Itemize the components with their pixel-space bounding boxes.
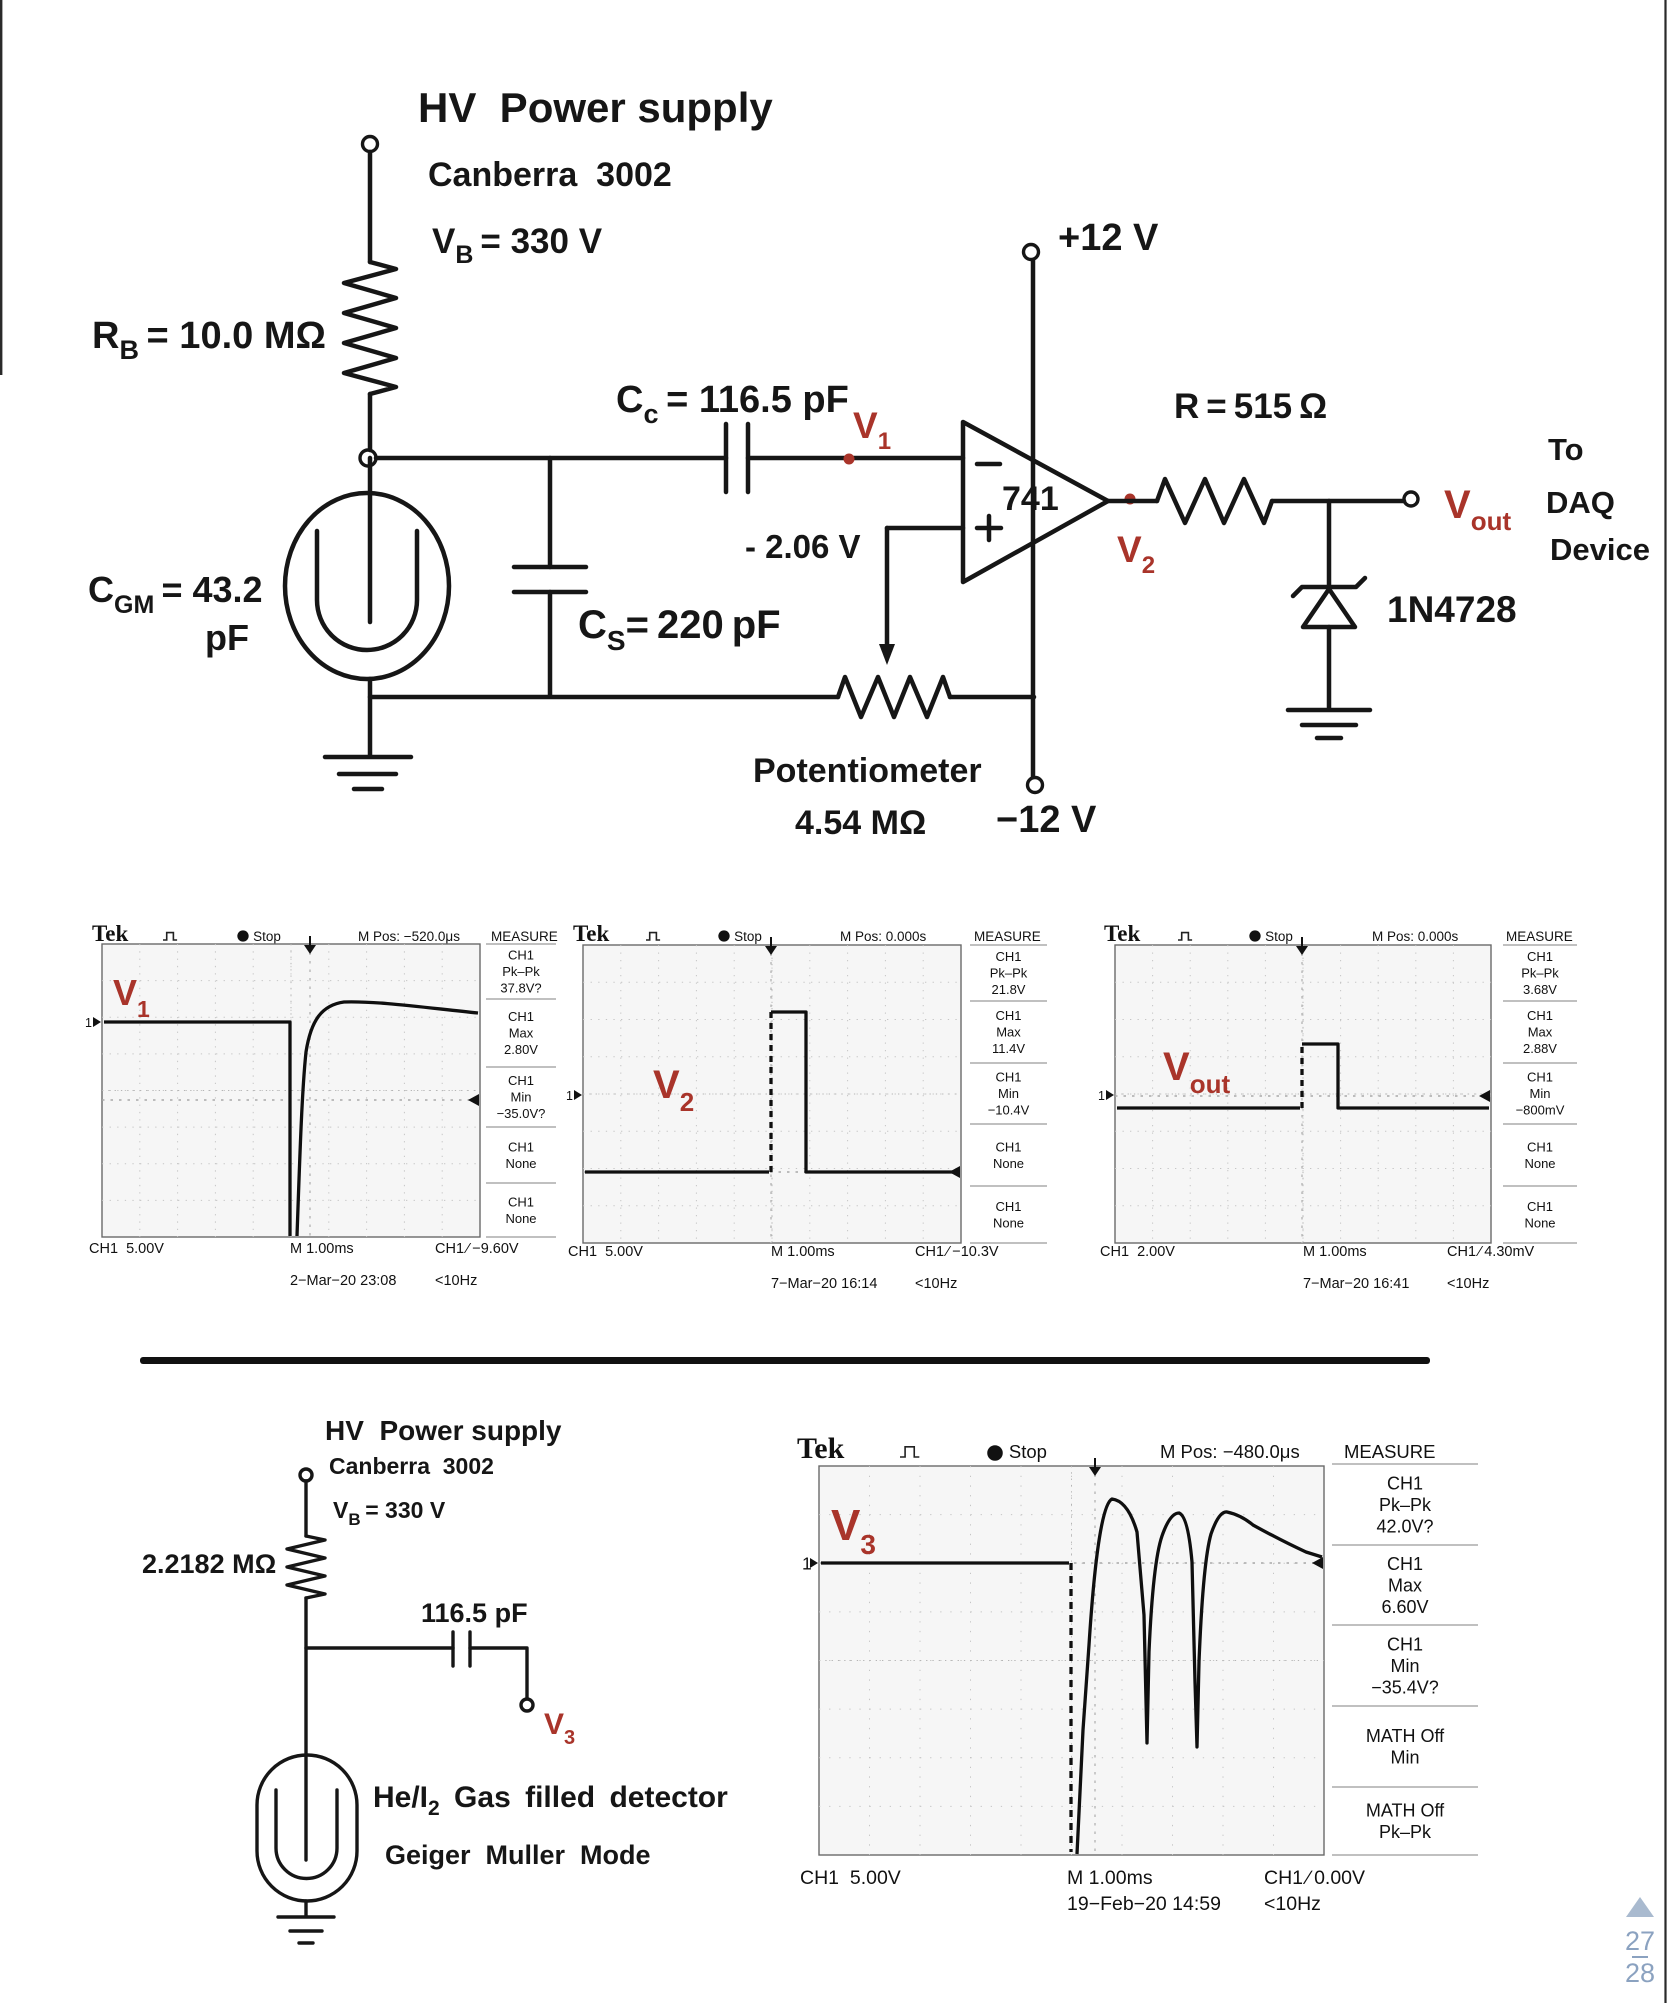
svg-text:11.4V: 11.4V — [992, 1041, 1025, 1056]
svg-text:None: None — [993, 1215, 1024, 1230]
svg-text:3.68V: 3.68V — [1523, 982, 1557, 997]
oscilloscope screenshot 4 (V3 waveform) — [797, 1432, 1480, 1922]
svg-text:−35.4V?: −35.4V? — [1371, 1677, 1439, 1697]
svg-text:Canberra 3002: Canberra 3002 — [329, 1453, 494, 1479]
svg-text:- 2.06 V: - 2.06 V — [745, 528, 861, 565]
capacitor Cs 220 pF — [514, 567, 586, 592]
svg-text:4.54 MΩ: 4.54 MΩ — [795, 804, 926, 842]
wire: RB to node — [368, 394, 373, 450]
Geiger tube anode wire — [368, 458, 373, 622]
svg-text:CH1 ∕ 0.00V: CH1 ∕ 0.00V — [1264, 1867, 1365, 1889]
page nav triangle — [1626, 1897, 1654, 1917]
svg-text:Max: Max — [996, 1025, 1021, 1040]
svg-text:Max: Max — [1388, 1575, 1422, 1595]
resistor 2.2182 MOhm — [287, 1536, 325, 1598]
svg-text:Pk–Pk: Pk–Pk — [1379, 1495, 1432, 1515]
wire: R to output terminal — [1272, 499, 1404, 504]
svg-text:Pk–Pk: Pk–Pk — [502, 964, 540, 979]
wire: op-amp output to R — [1108, 499, 1157, 504]
svg-text:<10Hz: <10Hz — [1264, 1893, 1321, 1915]
page left edge scan line — [0, 0, 2, 375]
wiper arrow from non-inverting input — [885, 528, 890, 648]
svg-text:Min: Min — [998, 1086, 1019, 1101]
svg-text:CH1 ∕ 4.30mV: CH1 ∕ 4.30mV — [1447, 1244, 1535, 1260]
svg-text:M Pos: −480.0μs: M Pos: −480.0μs — [1160, 1441, 1300, 1462]
zener diode D1 triangle — [1303, 589, 1355, 627]
svg-text:28: 28 — [1625, 1958, 1655, 1988]
ground (top circuit) — [325, 757, 411, 789]
wire: junction to coupling cap (bottom) — [306, 1646, 453, 1649]
svg-text:Canberra 3002: Canberra 3002 — [428, 156, 672, 194]
page right edge scan line — [1664, 0, 1666, 2003]
svg-text:CH1: CH1 — [1527, 949, 1553, 964]
op-amp non-inverting pin (+) — [977, 516, 1001, 540]
op-amp inverting pin (-) — [977, 462, 1000, 467]
svg-text:M Pos: 0.000s: M Pos: 0.000s — [1372, 929, 1459, 944]
capacitor Cs branch wire (bottom) — [548, 592, 553, 696]
svg-text:6.60V: 6.60V — [1381, 1597, 1428, 1617]
-12V terminal — [1028, 778, 1043, 793]
svg-text:CH1: CH1 — [1527, 1139, 1553, 1154]
svg-text:27: 27 — [1625, 1926, 1655, 1956]
wire: non-inverting input — [887, 526, 963, 531]
svg-text:CH1: CH1 — [995, 1070, 1021, 1085]
oscilloscope screenshot 2 (V2 waveform) — [561, 921, 1049, 1300]
svg-text:Min: Min — [1390, 1748, 1419, 1768]
svg-text:7−Mar−20 16:41: 7−Mar−20 16:41 — [1303, 1276, 1409, 1292]
svg-text:CH1: CH1 — [508, 1194, 534, 1209]
svg-text:741: 741 — [1002, 480, 1059, 518]
wire: terminal to resistor (bottom) — [304, 1481, 307, 1536]
Geiger-Muller tube CGM (envelope) — [285, 493, 449, 679]
svg-text:HV Power supply: HV Power supply — [325, 1415, 562, 1446]
svg-text:CH1: CH1 — [995, 1199, 1021, 1214]
svg-text:Min: Min — [511, 1090, 532, 1105]
svg-text:42.0V?: 42.0V? — [1376, 1516, 1433, 1536]
svg-text:CH1: CH1 — [1387, 1554, 1423, 1574]
svg-text:Min: Min — [1530, 1086, 1551, 1101]
svg-text:1: 1 — [566, 1089, 573, 1103]
svg-text:1N4728: 1N4728 — [1387, 589, 1517, 630]
svg-text:MATH Off: MATH Off — [1366, 1726, 1445, 1746]
svg-text:Pk–Pk: Pk–Pk — [990, 966, 1028, 981]
svg-text:CH1: CH1 — [1527, 1199, 1553, 1214]
node: anode junction — [360, 450, 376, 466]
svg-text:Stop: Stop — [734, 929, 762, 944]
svg-text:MEASURE: MEASURE — [491, 929, 558, 944]
svg-text:CH1: CH1 — [995, 949, 1021, 964]
svg-text:CH1 5.00V: CH1 5.00V — [89, 1241, 164, 1257]
Geiger tube (bottom, envelope) — [257, 1755, 357, 1901]
wire: resistor to tube (bottom) — [304, 1598, 307, 1860]
svg-text:CH1 ∕ −9.60V: CH1 ∕ −9.60V — [435, 1241, 519, 1257]
svg-text:Pk–Pk: Pk–Pk — [1521, 966, 1559, 981]
svg-text:7−Mar−20 16:14: 7−Mar−20 16:14 — [771, 1276, 877, 1292]
svg-text:M 1.00ms: M 1.00ms — [290, 1241, 354, 1257]
svg-text:CH1: CH1 — [1387, 1473, 1423, 1493]
svg-text:1: 1 — [1098, 1089, 1105, 1103]
wire: tube to ground — [368, 679, 373, 755]
power rail +12V to -12V — [1031, 260, 1036, 777]
svg-text:2.88V: 2.88V — [1523, 1041, 1557, 1056]
svg-text:<10Hz: <10Hz — [1447, 1276, 1489, 1292]
ground (zener) — [1288, 710, 1370, 738]
capacitor Cs branch wire (top) — [548, 458, 553, 567]
svg-text:−10.4V: −10.4V — [988, 1103, 1030, 1118]
svg-text:CH1: CH1 — [995, 1139, 1021, 1154]
svg-text:DAQ: DAQ — [1546, 485, 1615, 520]
svg-text:2−Mar−20 23:08: 2−Mar−20 23:08 — [290, 1273, 396, 1289]
svg-text:Stop: Stop — [1265, 929, 1293, 944]
svg-text:37.8V?: 37.8V? — [500, 981, 541, 996]
svg-text:CH1: CH1 — [508, 1139, 534, 1154]
svg-text:To: To — [1548, 432, 1584, 467]
section divider line — [140, 1357, 1430, 1364]
svg-text:None: None — [505, 1156, 536, 1171]
svg-text:CH1: CH1 — [1387, 1634, 1423, 1654]
svg-text:M Pos: 0.000s: M Pos: 0.000s — [840, 929, 927, 944]
wire: node to Cc — [376, 456, 726, 461]
page number separator — [1632, 1956, 1648, 1958]
oscilloscope screenshot 1 (V1 waveform) — [80, 921, 558, 1297]
HV supply terminal (top circuit) — [363, 137, 378, 152]
svg-text:Max: Max — [1528, 1025, 1553, 1040]
wire: cap to V3 terminal — [470, 1648, 527, 1698]
HV supply terminal (bottom circuit) — [300, 1469, 312, 1481]
svg-text:−800mV: −800mV — [1516, 1103, 1565, 1118]
svg-text:CH1 5.00V: CH1 5.00V — [800, 1867, 901, 1889]
oscilloscope screenshot 3 (Vout waveform) — [1093, 921, 1579, 1300]
svg-text:<10Hz: <10Hz — [915, 1276, 957, 1292]
potentiometer 4.54 MOhm — [838, 677, 950, 717]
svg-text:21.8V: 21.8V — [992, 982, 1026, 997]
svg-text:pF: pF — [205, 617, 249, 658]
svg-text:MEASURE: MEASURE — [974, 929, 1041, 944]
wire: zener to ground — [1327, 627, 1332, 708]
capacitor 116.5 pF (bottom) — [453, 1632, 470, 1666]
svg-text:−12 V: −12 V — [996, 799, 1097, 841]
svg-text:R = 515 Ω: R = 515 Ω — [1174, 387, 1327, 426]
node V1 (red dot) — [844, 454, 855, 465]
svg-text:−35.0V?: −35.0V? — [497, 1106, 546, 1121]
svg-text:None: None — [505, 1211, 536, 1226]
svg-text:CH1: CH1 — [508, 1073, 534, 1088]
svg-text:MATH Off: MATH Off — [1366, 1801, 1445, 1821]
svg-text:CH1 ∕ −10.3V: CH1 ∕ −10.3V — [915, 1244, 999, 1260]
svg-text:Stop: Stop — [253, 929, 281, 944]
+12V terminal — [1024, 245, 1039, 260]
svg-text:M 1.00ms: M 1.00ms — [1067, 1867, 1153, 1889]
svg-text:CH1 5.00V: CH1 5.00V — [568, 1244, 643, 1260]
svg-text:CH1: CH1 — [508, 1009, 534, 1024]
V3 terminal — [521, 1699, 533, 1711]
capacitor Cc 116.5 pF — [726, 424, 748, 492]
wire: Cc to op-amp inverting input — [748, 456, 963, 461]
svg-text:Potentiometer: Potentiometer — [753, 752, 982, 790]
svg-text:2.80V: 2.80V — [504, 1042, 538, 1057]
svg-text:+12 V: +12 V — [1058, 217, 1159, 259]
svg-text:19−Feb−20 14:59: 19−Feb−20 14:59 — [1067, 1893, 1221, 1915]
svg-text:CH1 2.00V: CH1 2.00V — [1100, 1244, 1175, 1260]
output terminal Vout — [1404, 492, 1418, 506]
resistor R = 515 Ohm — [1157, 479, 1272, 523]
svg-text:Pk–Pk: Pk–Pk — [1379, 1822, 1432, 1842]
svg-text:1: 1 — [85, 1016, 92, 1030]
svg-text:116.5 pF: 116.5 pF — [421, 1598, 528, 1628]
Geiger tube cathode U (bottom) — [276, 1790, 337, 1878]
svg-text:HV Power supply: HV Power supply — [418, 84, 773, 131]
svg-text:None: None — [993, 1156, 1024, 1171]
svg-text:Device: Device — [1550, 532, 1650, 567]
zener diode D1 1N4728 cathode bar — [1293, 578, 1365, 596]
svg-text:CH1: CH1 — [1527, 1008, 1553, 1023]
svg-text:Stop: Stop — [1009, 1441, 1047, 1462]
svg-text:Tek: Tek — [797, 1432, 845, 1465]
node V2 (red dot) — [1125, 494, 1136, 505]
svg-text:MEASURE: MEASURE — [1506, 929, 1573, 944]
svg-text:Geiger Muller Mode: Geiger Muller Mode — [385, 1840, 651, 1870]
resistor RB — [344, 262, 396, 394]
svg-text:CH1: CH1 — [508, 948, 534, 963]
wire: bottom rail to potentiometer — [370, 695, 838, 700]
wire: tube to ground (bottom) — [304, 1901, 307, 1916]
svg-text:Min: Min — [1390, 1656, 1419, 1676]
wire: HV terminal to RB — [368, 152, 373, 262]
wire: junction to zener — [1327, 501, 1332, 586]
svg-text:2.2182 MΩ: 2.2182 MΩ — [142, 1549, 276, 1579]
svg-text:M Pos: −520.0μs: M Pos: −520.0μs — [358, 929, 460, 944]
svg-text:<10Hz: <10Hz — [435, 1273, 477, 1289]
Geiger tube cathode (U electrode) — [317, 531, 417, 650]
svg-text:Max: Max — [509, 1026, 534, 1041]
svg-text:Tek: Tek — [573, 921, 609, 946]
wire: potentiometer to -12V rail — [950, 695, 1034, 700]
svg-text:None: None — [1524, 1215, 1555, 1230]
svg-text:None: None — [1524, 1156, 1555, 1171]
svg-text:Tek: Tek — [1104, 921, 1140, 946]
svg-text:M 1.00ms: M 1.00ms — [771, 1244, 835, 1260]
op-amp U1 741 — [963, 422, 1108, 582]
ground (bottom circuit) — [278, 1917, 334, 1943]
svg-text:CH1: CH1 — [995, 1008, 1021, 1023]
svg-text:M 1.00ms: M 1.00ms — [1303, 1244, 1367, 1260]
svg-text:CH1: CH1 — [1527, 1070, 1553, 1085]
svg-text:Tek: Tek — [92, 921, 128, 946]
svg-text:MEASURE: MEASURE — [1344, 1441, 1436, 1462]
